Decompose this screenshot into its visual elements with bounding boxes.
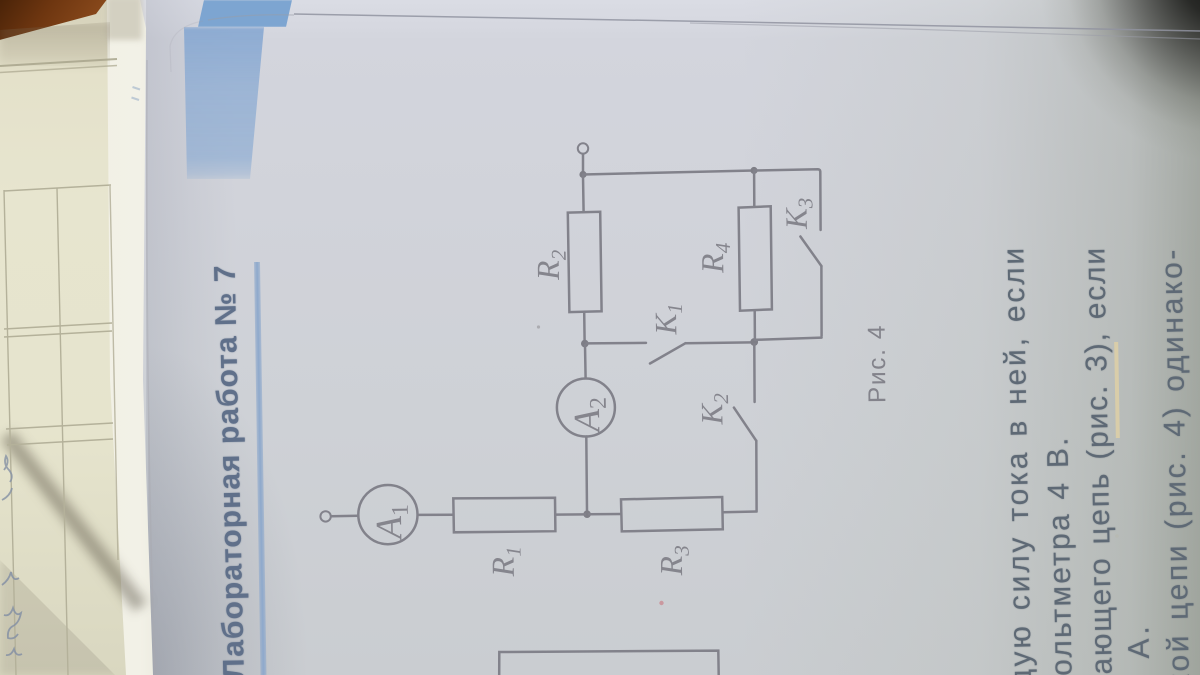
svg-text:R4: R4 — [694, 242, 736, 274]
label A1 — [369, 504, 415, 542]
label R3 — [653, 545, 695, 577]
svg-text:R3: R3 — [653, 545, 695, 577]
resistor R4 — [739, 206, 772, 310]
wire R4 top rail down to R4 — [753, 172, 756, 207]
node J1 — [579, 171, 586, 178]
bottom partial rectangle (voltmeter box, cut off) — [499, 651, 719, 675]
wire J3 to ammeter A2 — [584, 345, 587, 378]
svg-text:А2: А2 — [567, 397, 613, 435]
page left edge soft line — [147, 60, 155, 675]
svg-text:К2: К2 — [694, 393, 734, 426]
wire A1 to R1 — [418, 513, 453, 516]
ammeter A2 — [557, 379, 615, 437]
blue tape main piece — [176, 27, 296, 181]
switch K1 lever — [650, 343, 686, 363]
label K3 — [778, 198, 818, 231]
white page-edge strip of the book — [0, 0, 180, 675]
handwriting on notebook — [2, 456, 12, 500]
svg-text:R1: R1 — [484, 546, 526, 578]
svg-text:К3: К3 — [778, 198, 818, 231]
node J2 — [750, 338, 758, 346]
wire K3 down — [820, 266, 823, 336]
blue tape upper piece (above cover line) — [196, 0, 296, 27]
notebook top edge double line — [0, 59, 117, 66]
wire T2 to node J1 — [582, 154, 585, 172]
faint speck right page — [1115, 534, 1119, 538]
resistor R3 — [621, 497, 723, 531]
switch K2 stub from J2 — [753, 344, 756, 402]
label K2 — [694, 393, 734, 426]
label K1 — [648, 303, 688, 336]
wire A2 to node J4 — [585, 437, 588, 512]
switch K3 lever — [800, 237, 821, 267]
resistor R1 — [453, 498, 555, 533]
dust speck near R2 — [537, 325, 540, 328]
diagonal shadow across notebook (bottom-left) — [0, 428, 151, 615]
label R1 — [484, 546, 526, 578]
wire R4 to J2 — [753, 311, 756, 340]
wire K2 to R3 — [723, 510, 756, 513]
dark brown backdrop corner (top-left) — [0, 0, 122, 48]
wire K3 bottom to J2 — [756, 338, 822, 340]
title: Лабораторная работа № 7 (rotated) — [209, 264, 252, 675]
switch K2 lever — [734, 408, 756, 441]
svg-text:R2: R2 — [530, 249, 572, 281]
gray shadow band on notebook below brown — [0, 22, 116, 66]
node J3 — [581, 340, 589, 348]
terminal T2 (top input) — [578, 143, 588, 153]
node top of R4 branch — [750, 167, 757, 174]
wire R1 to J4 — [555, 513, 585, 516]
page right-side greenish darkening — [740, 0, 1200, 675]
wire terminal T1 to A1 — [331, 514, 358, 517]
wire top rail to K3 corner — [754, 169, 821, 230]
svg-text:К1: К1 — [648, 303, 688, 336]
wire J1 down to R2 — [582, 176, 585, 212]
blue ticks on white strip — [132, 87, 141, 100]
bottom-left spine shadow on page — [148, 290, 308, 675]
node J4 — [583, 510, 591, 518]
pink speck below circuit — [659, 601, 663, 605]
beige notebook on the left — [0, 0, 130, 675]
label R4 — [694, 242, 736, 274]
top-right dark corner shadow — [950, 0, 1200, 340]
label A2 — [567, 397, 613, 435]
resistor R2 — [568, 212, 602, 312]
tan underline next to (рис. 3) — [1114, 342, 1120, 438]
label R2 — [530, 249, 572, 281]
svg-text:Рис. 4: Рис. 4 — [864, 324, 892, 403]
notebook table grid — [4, 185, 111, 191]
switch K1 stub from J3 — [587, 342, 647, 345]
ammeter A1 — [358, 485, 417, 544]
circuit labels (italic serif, rotated) — [369, 198, 818, 578]
terminal T1 (left input) — [320, 511, 330, 521]
wire J4 to R3 — [589, 513, 621, 516]
wire top rail J1 to R4 top — [583, 171, 754, 175]
right-side body text columns (rotated 90ccw) — [997, 245, 1039, 675]
blue underline under title — [254, 262, 266, 675]
wire K2 down — [755, 441, 758, 511]
plastic cover edge line across top of page — [294, 14, 1200, 31]
full-height spine band — [146, 0, 236, 675]
film corner blob — [106, 0, 142, 40]
wire K1 to node J2 — [686, 341, 753, 344]
wire R2 to node J3 — [583, 312, 586, 341]
svg-text:А1: А1 — [369, 504, 415, 542]
